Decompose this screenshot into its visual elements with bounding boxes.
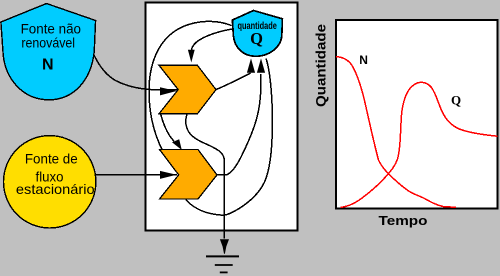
svg-text:estacionário: estacionário [16,181,95,197]
svg-text:N: N [359,53,368,67]
svg-text:Quantidade: Quantidade [314,23,329,107]
svg-text:N: N [42,57,54,74]
svg-text:Q: Q [250,29,263,48]
svg-text:Fonte de: Fonte de [25,150,78,166]
svg-text:Q: Q [451,92,461,107]
svg-text:Tempo: Tempo [379,213,428,228]
svg-text:renovável: renovável [21,35,75,51]
